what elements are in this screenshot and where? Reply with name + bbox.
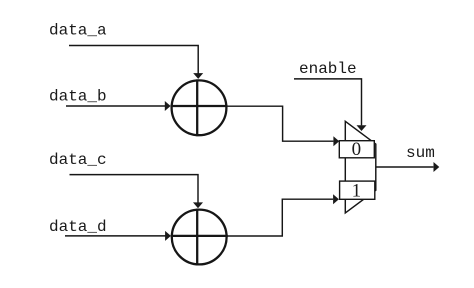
wire adder U2 output to mux port 1 <box>227 199 333 236</box>
wire enable <box>294 79 362 126</box>
mux M1 trapezoid body <box>345 121 376 213</box>
wire data_b <box>66 105 165 107</box>
arrow enable into mux select <box>357 125 367 131</box>
wire adder U1 output to mux port 0 <box>226 106 333 141</box>
mux port 0 box <box>339 141 374 158</box>
wire data_d <box>65 235 166 237</box>
arrow into mux port 0 <box>333 136 339 146</box>
mux port 1 box <box>340 181 375 199</box>
arrow into adder U2 top <box>193 202 203 208</box>
wire data_a <box>69 46 198 74</box>
svg-text:data_d: data_d <box>49 218 107 236</box>
adder U1 plus horizontal <box>171 105 228 107</box>
wire sum output <box>376 166 434 168</box>
svg-text:data_b: data_b <box>49 88 107 106</box>
svg-text:data_a: data_a <box>49 22 107 40</box>
wire data_c <box>70 175 199 203</box>
arrow into mux port 1 <box>333 194 339 204</box>
adder U2 plus horizontal <box>171 235 228 237</box>
arrow into adder U1 top <box>193 73 203 79</box>
arrow sum output <box>434 162 440 172</box>
adder U1 circle <box>172 80 227 135</box>
svg-text:enable: enable <box>299 60 357 78</box>
adder U1 plus vertical <box>196 79 198 136</box>
svg-text:0: 0 <box>352 139 362 160</box>
adder U2 plus vertical <box>196 209 198 266</box>
svg-text:1: 1 <box>352 180 362 201</box>
svg-text:sum: sum <box>406 144 435 162</box>
svg-text:data_c: data_c <box>49 151 107 169</box>
adder U2 circle <box>172 210 227 265</box>
arrow into adder U2 left <box>165 231 171 241</box>
arrow into adder U1 left <box>165 101 171 111</box>
